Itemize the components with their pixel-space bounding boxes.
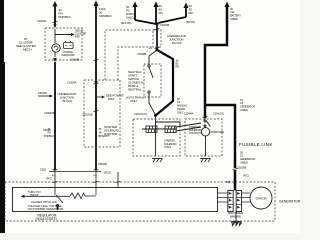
svg-text:C100/8B: C100/8B — [137, 52, 147, 56]
svg-text:REF: REF — [75, 35, 80, 39]
svg-text:FUSIBLE LINK: FUSIBLE LINK — [239, 142, 273, 147]
svg-text:C104/4A: C104/4A — [184, 112, 194, 116]
svg-text:BRIDGE: BRIDGE — [230, 215, 241, 219]
svg-text:C104 (G1): C104 (G1) — [213, 112, 224, 116]
svg-text:(P/C): (P/C) — [46, 177, 52, 181]
svg-text:DIST: DIST — [108, 97, 115, 101]
svg-text:ONLY: ONLY — [177, 111, 184, 115]
svg-text:COILS: COILS — [164, 145, 172, 149]
svg-text:SHLD: SHLD — [126, 16, 135, 20]
svg-text:(BLS UP): (BLS UP) — [121, 21, 131, 25]
svg-text:PNK/BLK: PNK/BLK — [44, 134, 54, 138]
svg-text:GENERATOR: GENERATOR — [240, 105, 255, 109]
svg-text:BAT: BAT — [226, 180, 231, 184]
svg-text:STATOR: STATOR — [255, 197, 267, 201]
svg-text:ONLY: ONLY — [130, 99, 138, 103]
svg-text:C100/10B: C100/10B — [44, 111, 55, 115]
svg-text:RD: RD — [176, 65, 180, 69]
svg-text:C100/3B: C100/3B — [70, 58, 80, 62]
svg-text:Y1A: Y1A — [230, 10, 235, 14]
svg-text:C101/4 (G7): C101/4 (G7) — [134, 112, 147, 116]
svg-text:C519/4F: C519/4F — [98, 162, 108, 166]
svg-text:BLOCK: BLOCK — [63, 99, 73, 103]
svg-text:MANUAL: MANUAL — [177, 104, 188, 108]
svg-text:PN: PN — [48, 131, 52, 135]
svg-text:PNK/BLK: PNK/BLK — [59, 15, 71, 19]
svg-text:NEUTRAL: NEUTRAL — [128, 88, 142, 92]
svg-text:(P/C2): (P/C2) — [104, 171, 111, 175]
svg-text:GENERATOR: GENERATOR — [279, 200, 300, 204]
svg-text:(SOLID STATE): (SOLID STATE) — [36, 217, 57, 221]
svg-text:CABLE: CABLE — [240, 108, 248, 112]
svg-text:TRANS: TRANS — [177, 107, 186, 111]
svg-text:C519/10B: C519/10B — [82, 113, 93, 117]
svg-text:(3R A/C): (3R A/C) — [186, 20, 195, 24]
svg-text:BLOCK: BLOCK — [172, 41, 182, 45]
svg-text:INDICATOR: INDICATOR — [62, 53, 75, 57]
svg-text:C100/8A: C100/8A — [67, 81, 77, 85]
svg-text:C100/4B: C100/4B — [160, 23, 170, 27]
svg-text:4A: 4A — [99, 131, 102, 135]
svg-text:BRN/WHT: BRN/WHT — [99, 134, 111, 138]
svg-text:PN: PN — [159, 11, 163, 15]
svg-text:GENERATOR: GENERATOR — [240, 157, 255, 161]
svg-text:MECH: MECH — [23, 48, 31, 52]
svg-text:ORN/BLK: ORN/BLK — [99, 14, 112, 18]
svg-text:(P/C): (P/C) — [243, 173, 249, 177]
svg-text:C519/2B: C519/2B — [237, 166, 247, 170]
svg-text:C200: C200 — [40, 168, 46, 172]
svg-text:C519/10: C519/10 — [38, 91, 48, 95]
svg-text:CABLE: CABLE — [230, 17, 238, 21]
svg-text:ARMATURE: ARMATURE — [211, 130, 225, 134]
svg-text:C200/4A: C200/4A — [37, 19, 47, 23]
svg-text:CONTACTS: CONTACTS — [189, 131, 202, 135]
svg-text:OR STOPPED GENERATOR: OR STOPPED GENERATOR — [28, 207, 64, 211]
svg-text:BATTERY: BATTERY — [230, 14, 241, 18]
svg-text:CABLE: CABLE — [240, 161, 248, 165]
svg-text:INPUT: INPUT — [30, 193, 39, 197]
